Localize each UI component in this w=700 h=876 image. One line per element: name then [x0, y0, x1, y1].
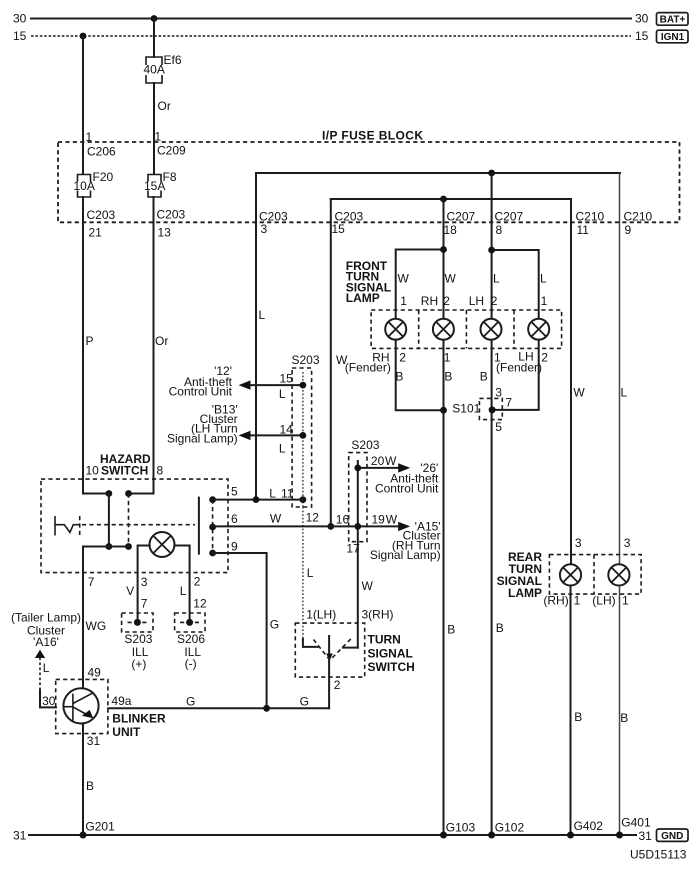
- wire hazard pin6 row: [213, 525, 358, 527]
- svg-text:49a: 49a: [111, 694, 131, 708]
- svg-text:20: 20: [371, 454, 385, 468]
- wire C210-11 down to rear RH lamp (W): [570, 199, 572, 565]
- fuse Ef6: [144, 53, 182, 83]
- svg-text:(Fender): (Fender): [345, 361, 391, 375]
- wire front LH fender lamp to splice S101: [493, 340, 539, 410]
- svg-text:C207: C207: [447, 210, 476, 224]
- wire S203 pin19 to cluster 'A15': [358, 525, 400, 527]
- svg-text:1: 1: [541, 294, 548, 308]
- svg-text:L: L: [180, 584, 187, 598]
- svg-text:(+): (+): [131, 657, 146, 671]
- net tag IGN1: [657, 30, 689, 43]
- wire C207-8 down through LH front lamp to ground G102 (B): [491, 173, 493, 319]
- svg-text:S203: S203: [292, 353, 320, 367]
- svg-text:18: 18: [444, 223, 458, 237]
- svg-text:F8: F8: [163, 170, 177, 184]
- arrowhead to anti-theft: [239, 380, 251, 389]
- splice S203 wire (dotted): [302, 372, 304, 507]
- hazard actuator dashed link: [82, 524, 195, 526]
- wire C207-18 down to front lamp feed and ground G103 (B): [443, 199, 445, 319]
- wire S203 pin12 down to turn signal switch 1(LH) dotted: [302, 507, 304, 639]
- svg-text:Control Unit: Control Unit: [375, 482, 439, 496]
- junction with C203-3 L wire: [253, 496, 260, 503]
- svg-text:G: G: [300, 694, 309, 708]
- svg-text:G103: G103: [446, 821, 476, 835]
- wire to A16 (dashed): [39, 658, 41, 691]
- svg-text:6: 6: [231, 512, 238, 526]
- svg-text:S101: S101: [452, 401, 480, 415]
- svg-text:Ef6: Ef6: [164, 53, 182, 67]
- svg-text:F20: F20: [93, 170, 114, 184]
- turn signal switch pole: [328, 636, 330, 708]
- turn signal switch enclosure: [295, 623, 364, 677]
- svg-text:40A: 40A: [144, 63, 165, 77]
- svg-text:I/P FUSE BLOCK: I/P FUSE BLOCK: [322, 129, 423, 143]
- ground G102: [488, 832, 495, 839]
- hazard switch enclosure: [41, 479, 228, 572]
- svg-text:(-): (-): [185, 657, 197, 671]
- contact dashes RH: [332, 639, 351, 658]
- svg-text:C207: C207: [495, 210, 524, 224]
- svg-text:Or: Or: [158, 99, 171, 113]
- wire hazard pin9 row to G net: [213, 553, 267, 708]
- ground G402: [567, 832, 574, 839]
- lamp front LH fender: [528, 319, 549, 340]
- svg-text:W: W: [445, 272, 457, 286]
- svg-text:3: 3: [495, 385, 502, 399]
- svg-text:Signal Lamp): Signal Lamp): [370, 548, 441, 562]
- junction pin 9: [209, 550, 216, 557]
- junction S203 pin 11 (hazard pin5 row): [300, 496, 307, 503]
- svg-text:30: 30: [42, 694, 56, 708]
- svg-text:W: W: [573, 386, 585, 400]
- svg-text:G102: G102: [495, 821, 525, 835]
- wire branch to front lamp RH(fender) pin1: [396, 250, 444, 319]
- svg-text:BLINKER: BLINKER: [112, 711, 166, 725]
- svg-text:1: 1: [400, 294, 407, 308]
- svg-text:14: 14: [280, 422, 294, 436]
- svg-text:C210: C210: [624, 210, 653, 224]
- svg-text:2: 2: [443, 294, 450, 308]
- wire F20 to C203-21 to hazard switch pin 10 (P): [83, 197, 109, 494]
- svg-text:1(LH): 1(LH): [306, 607, 336, 621]
- svg-text:Or: Or: [155, 334, 168, 348]
- svg-text:49: 49: [88, 666, 102, 680]
- wire Ef6 to fuse F8 (Or): [153, 83, 155, 174]
- svg-text:15: 15: [332, 222, 346, 236]
- fuse block internal wire net-W (C203-15 / C207-18 / C210-11): [331, 198, 571, 200]
- svg-text:2: 2: [541, 350, 548, 364]
- lamp rear LH: [608, 564, 629, 585]
- wire ground bus 31: [29, 834, 636, 836]
- svg-text:9: 9: [625, 223, 632, 237]
- svg-text:(LH): (LH): [592, 593, 615, 607]
- svg-text:IGN1: IGN1: [661, 32, 685, 43]
- svg-text:P: P: [86, 334, 94, 348]
- svg-text:7: 7: [88, 575, 95, 589]
- junction lower node right: [125, 543, 132, 550]
- splice S203 ILL(+) junction: [134, 619, 141, 626]
- wire blinker pin31 to G201 (B): [82, 724, 84, 835]
- svg-text:17: 17: [346, 541, 360, 555]
- svg-text:B: B: [480, 369, 488, 383]
- fuse F8 15A: [143, 170, 177, 197]
- hazard internal contact (solid): [108, 494, 110, 547]
- svg-text:LH: LH: [469, 294, 484, 308]
- wire rear LH lamp to G401 (B, thin): [619, 586, 621, 836]
- wire hazard lamp left to pin3: [138, 546, 150, 623]
- lamp front RH: [433, 319, 454, 340]
- svg-text:B: B: [444, 369, 452, 383]
- svg-text:B: B: [86, 779, 94, 793]
- svg-text:G: G: [186, 694, 195, 708]
- rear lamp enclosure: [549, 555, 641, 595]
- wire S203 pin20 to anti-theft '26': [358, 467, 400, 469]
- pole arrowhead: [326, 654, 333, 662]
- svg-text:SIGNAL: SIGNAL: [368, 646, 413, 660]
- svg-text:UNIT: UNIT: [112, 725, 141, 739]
- arrowhead to 'A15': [398, 522, 410, 531]
- junction G net: [263, 705, 270, 712]
- wire C203-15 down to hazard pin6 row: [330, 199, 332, 526]
- arrowhead up to A16: [35, 650, 45, 658]
- junction on bus 30: [151, 15, 158, 22]
- svg-text:(Fender): (Fender): [496, 360, 542, 374]
- svg-text:2: 2: [491, 294, 498, 308]
- svg-text:8: 8: [157, 464, 164, 478]
- I/P fuse block enclosure: [58, 142, 680, 222]
- junction B net at x443: [440, 407, 447, 414]
- front turn signal lamp title: [346, 259, 391, 305]
- svg-text:31: 31: [639, 829, 653, 843]
- svg-text:Signal Lamp): Signal Lamp): [167, 432, 238, 446]
- junction S203 pin 15: [300, 382, 307, 389]
- svg-text:G401: G401: [621, 816, 651, 830]
- svg-text:(RH): (RH): [543, 593, 568, 607]
- junction S203 pin 20: [354, 465, 361, 472]
- turn signal switch RH contact stub: [343, 647, 358, 649]
- blinker unit enclosure: [56, 679, 108, 733]
- junction at C207-8 branch: [488, 247, 495, 254]
- svg-text:W: W: [386, 512, 398, 526]
- junction pin 5: [209, 496, 216, 503]
- svg-text:B: B: [574, 710, 582, 724]
- hazard contact bar: [198, 498, 200, 554]
- svg-text:11: 11: [577, 223, 590, 237]
- wire pin7 horizontal: [83, 546, 129, 548]
- svg-text:C210: C210: [576, 210, 605, 224]
- svg-text:15: 15: [635, 29, 649, 43]
- svg-text:B: B: [447, 623, 455, 637]
- svg-text:3: 3: [624, 536, 631, 550]
- hazard output pins dashed link: [212, 500, 214, 553]
- junction S203 pin 19 / hazard pin6 row: [354, 523, 361, 530]
- svg-text:L: L: [540, 272, 547, 286]
- fuse F20 10A: [73, 170, 114, 197]
- junction C207-18 on net-W: [440, 196, 447, 203]
- svg-text:G: G: [270, 618, 279, 632]
- lamp front LH: [481, 319, 502, 340]
- splice S206 ILL(-) enclosure: [175, 613, 205, 632]
- svg-text:L: L: [279, 442, 286, 456]
- svg-text:12: 12: [306, 511, 320, 525]
- svg-text:L: L: [621, 386, 628, 400]
- junction on bus 15: [80, 33, 87, 40]
- wire bus 15 (dashed): [31, 35, 631, 37]
- junction pin8 node: [125, 490, 132, 497]
- junction lower node left: [106, 543, 113, 550]
- svg-text:C203: C203: [87, 208, 116, 222]
- svg-text:TURN: TURN: [368, 633, 401, 647]
- junction at C207-18 branch: [440, 246, 447, 253]
- junction pin 6: [209, 524, 216, 531]
- svg-text:7: 7: [141, 597, 148, 611]
- svg-text:8: 8: [496, 223, 503, 237]
- junction S203 pin 14: [300, 432, 307, 439]
- svg-text:'A16': 'A16': [33, 635, 59, 649]
- svg-text:19: 19: [372, 512, 386, 526]
- svg-text:L: L: [307, 566, 314, 580]
- svg-text:LAMP: LAMP: [346, 291, 380, 305]
- svg-text:5: 5: [495, 420, 502, 434]
- splice S203 (right) enclosure: [349, 453, 367, 542]
- svg-text:SWITCH: SWITCH: [368, 660, 415, 674]
- svg-text:3(RH): 3(RH): [362, 607, 394, 621]
- splice S203 (left) enclosure: [292, 368, 312, 507]
- svg-text:B: B: [496, 621, 504, 635]
- wire C203-3 down to hazard pin5 row (L): [255, 173, 257, 500]
- svg-text:C209: C209: [157, 144, 186, 158]
- wire bus 30: [31, 18, 631, 20]
- wire S203 pin14 to cluster B13: [247, 434, 303, 436]
- svg-text:GND: GND: [661, 831, 683, 842]
- arrowhead to cluster: [239, 431, 251, 440]
- wire hazard pin5 row: [213, 499, 303, 501]
- svg-text:31: 31: [87, 734, 101, 748]
- hazard lamp: [150, 532, 175, 557]
- splice S203 ILL(+) bar: [128, 621, 148, 623]
- svg-text:9: 9: [231, 539, 238, 553]
- svg-text:U5D15113: U5D15113: [630, 848, 687, 862]
- svg-text:30: 30: [635, 12, 649, 26]
- lamp rear RH: [560, 564, 581, 585]
- svg-text:(Tailer Lamp): (Tailer Lamp): [11, 610, 81, 624]
- svg-text:3: 3: [141, 575, 148, 589]
- svg-text:G201: G201: [85, 819, 115, 833]
- wire C210-9 down to rear LH lamp (L, thin): [619, 173, 621, 565]
- splice S203 wire W: [357, 461, 359, 648]
- svg-text:W: W: [385, 454, 397, 468]
- front lamp enclosure: [371, 310, 561, 348]
- hazard internal contact (dashed): [128, 494, 130, 547]
- svg-text:L: L: [43, 661, 50, 675]
- wire branch to front lamp LH(fender) pin1: [492, 250, 539, 319]
- svg-text:S206: S206: [177, 632, 205, 646]
- svg-text:2: 2: [194, 574, 201, 588]
- blinker unit U1 (flasher symbol): [63, 688, 98, 723]
- svg-text:L: L: [493, 272, 500, 286]
- splice S101 enclosure: [479, 398, 502, 419]
- svg-text:WG: WG: [86, 619, 107, 633]
- fuse block internal wire net-L (C203-3 / C207-8 / C210-9): [256, 172, 620, 174]
- svg-text:C203: C203: [157, 208, 186, 222]
- wire bus30 to fuse Ef6: [153, 19, 155, 58]
- svg-text:15: 15: [280, 372, 294, 386]
- svg-text:SWITCH: SWITCH: [101, 464, 148, 478]
- svg-text:BAT+: BAT+: [660, 14, 686, 25]
- rear turn signal lamp title: [497, 550, 543, 600]
- svg-text:G402: G402: [574, 819, 604, 833]
- svg-text:2: 2: [334, 678, 341, 692]
- svg-text:3: 3: [575, 536, 582, 550]
- hazard button symbol: [55, 516, 80, 536]
- svg-text:V: V: [126, 584, 134, 598]
- lamp front RH fender: [385, 319, 406, 340]
- wire hazard pin7 down to blinker pin49: [82, 547, 84, 689]
- svg-text:5: 5: [231, 485, 238, 499]
- junction C207-8 on net-L: [488, 170, 495, 177]
- junction C203-15 feed on pin6 row: [327, 523, 334, 530]
- svg-text:L: L: [259, 308, 266, 322]
- svg-text:W: W: [270, 512, 282, 526]
- svg-text:12: 12: [193, 597, 207, 611]
- ground G401: [616, 832, 623, 839]
- splice S206 ILL(-) junction: [186, 619, 193, 626]
- svg-text:10: 10: [86, 464, 100, 478]
- wire blinker pin 49a row (G): [108, 707, 329, 709]
- svg-text:Control Unit: Control Unit: [169, 385, 233, 399]
- svg-text:3: 3: [261, 222, 268, 236]
- svg-text:31: 31: [13, 829, 27, 843]
- contact dashes LH: [314, 640, 329, 659]
- svg-text:11: 11: [281, 487, 294, 501]
- svg-text:13: 13: [158, 226, 172, 240]
- svg-text:W: W: [362, 579, 374, 593]
- net tag GND: [657, 829, 689, 842]
- splice S101 junction: [489, 406, 496, 413]
- junction pin10 node: [106, 490, 113, 497]
- wire front RH fender lamp to S101 column: [396, 340, 444, 411]
- splice S203 ILL(+) enclosure: [122, 613, 153, 632]
- wire S203 pin15 to anti-theft control unit: [247, 384, 303, 386]
- svg-text:S203: S203: [351, 438, 379, 452]
- svg-text:2: 2: [399, 350, 406, 364]
- svg-text:1: 1: [574, 593, 581, 607]
- wire hazard lamp right to pin2: [174, 546, 189, 623]
- arrowhead to '26': [398, 463, 410, 472]
- svg-text:RH: RH: [421, 294, 438, 308]
- svg-text:S203: S203: [124, 632, 152, 646]
- turn signal switch LH contact stub: [303, 639, 318, 647]
- svg-text:C206: C206: [87, 145, 116, 159]
- svg-text:B: B: [620, 711, 628, 725]
- splice S206 ILL(-) bar: [180, 621, 200, 623]
- svg-text:L: L: [279, 387, 286, 401]
- wire rear RH lamp to G402 (B): [570, 586, 572, 836]
- wire F8 to C203-13 to hazard switch pin 8 (Or): [129, 197, 154, 494]
- svg-text:LAMP: LAMP: [508, 586, 542, 600]
- svg-text:21: 21: [89, 226, 103, 240]
- ground G201: [80, 832, 87, 839]
- svg-text:L: L: [269, 487, 276, 501]
- wire bus15 down to fuse F20: [82, 36, 84, 174]
- wire blinker pin30: [40, 690, 56, 707]
- svg-text:15: 15: [13, 29, 27, 43]
- svg-text:W: W: [398, 272, 410, 286]
- net tag BAT+: [657, 13, 689, 26]
- svg-text:1: 1: [444, 350, 451, 364]
- svg-text:7: 7: [505, 396, 512, 410]
- svg-text:16: 16: [336, 512, 350, 526]
- svg-text:1: 1: [622, 593, 629, 607]
- svg-text:30: 30: [13, 12, 27, 26]
- ground G103: [440, 832, 447, 839]
